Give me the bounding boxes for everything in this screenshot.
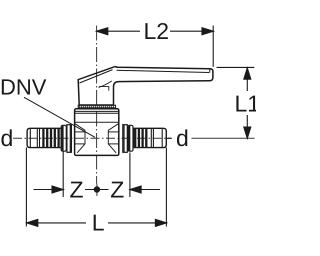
svg-text:Z: Z <box>70 177 84 203</box>
svg-text:d: d <box>176 125 189 151</box>
svg-text:d: d <box>1 125 14 151</box>
svg-text:L: L <box>92 210 105 236</box>
svg-text:DNV: DNV <box>0 74 47 99</box>
svg-text:L2: L2 <box>144 18 170 44</box>
svg-text:Z: Z <box>110 177 124 203</box>
svg-text:L1: L1 <box>235 91 257 117</box>
